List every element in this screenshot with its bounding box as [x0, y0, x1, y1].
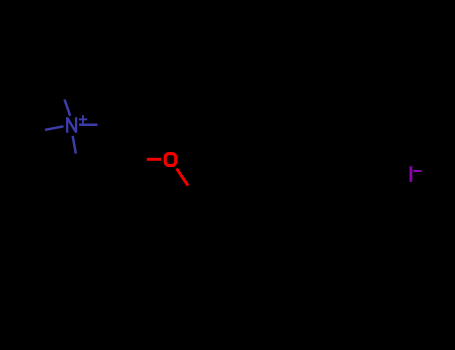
atom O : letter O	[165, 154, 176, 166]
wire: bond CH2-O horizontal (red half)	[147, 158, 161, 161]
wire: bond N-CH2 down (blue half)	[73, 136, 76, 154]
atom N+ : letter N	[67, 117, 76, 133]
wire: bond O-CH2 diagonal (red half)	[177, 169, 188, 186]
wire: bond N-CH3 upper (blue half)	[65, 100, 71, 116]
wire: bond N-CH3 left (blue half)	[45, 126, 64, 130]
atom N+ : plus sign	[79, 115, 87, 123]
iodide ion: letter I	[409, 166, 412, 182]
iodide ion: superscript minus	[414, 170, 422, 172]
wire: bond N-CH2 right (blue half)	[79, 123, 98, 126]
